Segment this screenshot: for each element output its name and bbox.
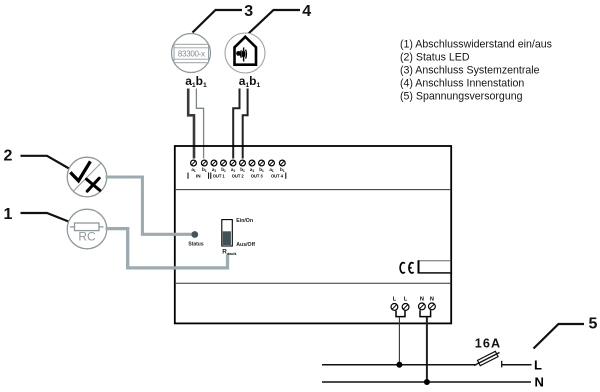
svg-text:Ein/On: Ein/On — [236, 218, 253, 224]
svg-text:Status: Status — [188, 241, 204, 247]
svg-text:a1b1: a1b1 — [239, 74, 261, 89]
svg-text:b1: b1 — [280, 167, 285, 173]
device outline — [175, 146, 451, 323]
mains terminal labels L L N N — [393, 296, 434, 302]
pointer label 2 — [4, 148, 70, 169]
svg-text:N: N — [430, 296, 434, 302]
mains line N — [322, 381, 531, 383]
mains line L (after fuse) — [502, 364, 532, 366]
svg-text:a1: a1 — [191, 167, 196, 173]
svg-text:b1: b1 — [259, 167, 264, 173]
device inner line (above mains section) — [175, 282, 451, 284]
svg-text:a1b1: a1b1 — [185, 74, 207, 89]
wire from U2 to status LED (grey) — [106, 177, 193, 234]
svg-text:L: L — [393, 297, 397, 303]
bracket joining L terminals — [396, 311, 405, 317]
switch S1 R_abschl body — [222, 220, 233, 246]
wire L drop to mains — [398, 317, 400, 365]
svg-text:4: 4 — [302, 3, 311, 20]
junction dot on L — [396, 362, 402, 368]
fuse F1 — [474, 351, 502, 367]
legend text — [400, 38, 552, 102]
group bracket IN — [188, 173, 209, 179]
svg-text:(3) Anschluss Systemzentrale: (3) Anschluss Systemzentrale — [400, 64, 540, 76]
svg-text:a1: a1 — [269, 167, 274, 173]
svg-text:OUT 4: OUT 4 — [271, 174, 284, 179]
svg-text:a1: a1 — [250, 167, 255, 173]
svg-text:b1: b1 — [240, 167, 245, 173]
svg-text:IN: IN — [196, 174, 201, 179]
terminal pin labels a1 b1 row — [191, 167, 284, 173]
pointer label 5 — [534, 315, 598, 348]
type label plate — [418, 260, 452, 273]
svg-text:b1: b1 — [202, 167, 207, 173]
svg-text:a1: a1 — [212, 167, 217, 173]
svg-text:Rabschl.: Rabschl. — [222, 249, 237, 256]
svg-text:(4) Anschluss Innenstation: (4) Anschluss Innenstation — [400, 77, 524, 89]
wire b1 from U3 to terminal IN b1 — [196, 89, 203, 159]
svg-text:L: L — [534, 357, 542, 372]
status LED D1 — [191, 231, 198, 238]
pointer label 3 — [193, 3, 254, 33]
svg-text:OUT 2: OUT 2 — [232, 174, 245, 179]
svg-text:(5) Spannungsversorgung: (5) Spannungsversorgung — [400, 90, 523, 102]
svg-text:3: 3 — [244, 3, 253, 20]
pointer label 4 — [249, 3, 312, 34]
RC terminator icon U1 — [67, 209, 107, 249]
bracket joining N terminals — [420, 310, 431, 316]
svg-text:N: N — [420, 296, 424, 302]
indoor station icon U4 (house with speaker) — [225, 33, 265, 73]
svg-text:(2) Status LED: (2) Status LED — [400, 51, 470, 63]
group bracket OUT1-OUT4 — [211, 173, 286, 179]
test icon U2 (check/cross circle) — [67, 157, 107, 197]
junction dot on N — [424, 379, 430, 385]
svg-text:16A: 16A — [475, 337, 501, 351]
wire a1 from U4 to terminal OUT2 a1 — [233, 89, 239, 159]
svg-text:(1) Abschlusswiderstand ein/au: (1) Abschlusswiderstand ein/aus — [400, 38, 552, 50]
svg-text:2: 2 — [4, 148, 13, 165]
svg-text:83300-x: 83300-x — [178, 49, 205, 58]
svg-text:L: L — [404, 297, 408, 303]
svg-text:OUT 3: OUT 3 — [251, 174, 264, 179]
device inner line (below terminal section) — [175, 189, 451, 191]
mains terminal screws L L N N — [391, 303, 435, 310]
svg-text:RC: RC — [78, 230, 96, 244]
svg-text:N: N — [535, 375, 544, 390]
svg-text:1: 1 — [4, 206, 13, 223]
svg-text:a1: a1 — [231, 167, 236, 173]
terminal screws row (IN a1 b1, OUT1..OUT4 a1 b1) — [191, 160, 286, 166]
CE mark — [400, 263, 413, 273]
svg-text:5: 5 — [589, 315, 598, 332]
wire b1 from U4 to terminal OUT2 b1 — [243, 89, 248, 159]
system centre icon U3 (83300-x) — [172, 34, 211, 73]
pointer label 1 — [4, 206, 69, 223]
mains line L — [322, 364, 477, 366]
svg-text:Aus/Off: Aus/Off — [236, 242, 255, 248]
wire N drop to mains — [426, 317, 428, 382]
svg-text:OUT 1: OUT 1 — [213, 174, 226, 179]
svg-text:b1: b1 — [221, 167, 226, 173]
wire a1 from U3 to terminal IN a1 — [188, 89, 194, 159]
wire from U1 to R_abschl switch (grey) — [106, 229, 228, 268]
